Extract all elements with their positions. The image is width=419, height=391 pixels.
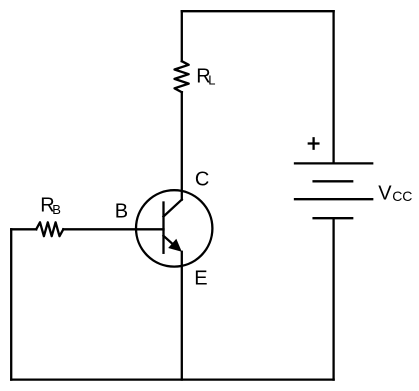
svg-text:CC: CC [392,188,412,204]
battery VCC plate 1 long [295,162,372,164]
transistor Q1 collector diagonal [164,200,182,217]
label RL [196,66,215,88]
battery plus sign vertical [312,138,314,148]
transistor Q1 emitter diagonal [164,236,177,247]
svg-text:V: V [378,182,392,204]
svg-text:C: C [195,169,209,191]
wire collector to transistor [181,92,183,199]
wire bottom horizontal [11,378,333,380]
svg-text:B: B [52,202,61,217]
svg-text:L: L [208,73,215,88]
battery VCC plate 3 long [295,198,372,200]
label VCC [378,182,412,204]
wire top horizontal [182,10,334,12]
label RB [40,195,61,218]
transistor Q1 body circle [136,190,212,266]
transistor Q1 emitter arrowhead [168,239,182,252]
wire emitter vertical [181,252,183,380]
svg-text:B: B [115,201,128,223]
wire right vertical top [332,11,334,163]
wire base right segment [63,228,163,230]
transistor Q1 base bar [162,203,164,253]
wire left vertical [10,229,12,379]
battery VCC plate 4 short [314,217,353,219]
wire right vertical bottom [332,218,334,379]
battery plus sign horizontal [309,142,319,144]
battery VCC plate 2 short [314,180,353,182]
svg-text:E: E [194,268,207,290]
wire base left segment [11,228,36,230]
resistor RL [175,61,189,92]
wire collector top vertical [181,11,183,61]
resistor RB [36,222,63,236]
